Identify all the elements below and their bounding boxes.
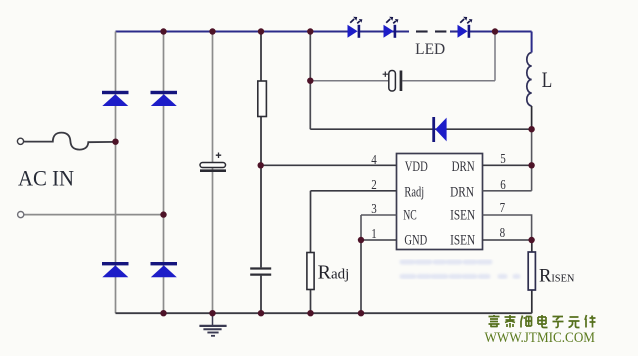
terminal AC bottom <box>18 212 24 218</box>
diode D4 bridge bottom-right <box>151 262 178 277</box>
wire AC bottom <box>24 214 164 216</box>
wire cap-link vertical <box>494 32 496 81</box>
node rail2-Radj <box>307 310 313 316</box>
wire NC-GND ground vertical <box>360 240 362 313</box>
node AC-bottom <box>160 211 166 217</box>
svg-text:LED: LED <box>415 41 445 58</box>
svg-text:GND: GND <box>404 233 427 249</box>
node rail-C1 <box>209 28 215 34</box>
diode D1 bridge top-left <box>102 91 129 106</box>
wire pin1 <box>361 239 397 241</box>
svg-text:8: 8 <box>500 225 506 240</box>
wire pin4 <box>261 164 397 166</box>
svg-text:ISEN: ISEN <box>450 233 475 249</box>
wire bulk cap vertical <box>212 32 214 314</box>
capacitor C1 electrolytic bulk <box>200 153 226 173</box>
LED LED3 <box>458 17 473 38</box>
wire pin3 <box>361 215 397 240</box>
wire pin7 <box>483 215 532 240</box>
node pin4 <box>258 162 264 168</box>
diode D5 freewheel <box>432 117 446 142</box>
wire left bridge branch vertical <box>115 32 117 314</box>
wire pin8 <box>483 239 532 241</box>
wire AC top with fuse <box>24 133 116 150</box>
node rail-VDDbranch <box>307 28 313 34</box>
svg-text:ISEN: ISEN <box>450 208 475 224</box>
svg-text:3: 3 <box>371 201 377 216</box>
node rail2-icgnd <box>358 310 364 316</box>
node rail2-gnd <box>209 310 215 316</box>
svg-text:DRN: DRN <box>450 185 474 201</box>
svg-text:4: 4 <box>371 152 377 167</box>
svg-text:AC IN: AC IN <box>18 166 74 191</box>
node rail-caplink <box>492 28 498 34</box>
inductor L1 <box>527 53 532 107</box>
wire pin2 <box>311 190 397 192</box>
ghost watermark smudges <box>402 262 518 277</box>
wire right bridge branch vertical <box>163 32 165 314</box>
node rail-R1 <box>258 28 264 34</box>
wire Radj branch vertical <box>310 191 312 313</box>
wire inductor top <box>531 32 533 53</box>
wire pin5 <box>483 164 532 166</box>
IC U1 box <box>397 154 483 250</box>
svg-text:5: 5 <box>500 151 506 166</box>
svg-text:DRN: DRN <box>452 159 475 175</box>
wire freewheel horizontal <box>310 128 531 130</box>
node AC-top <box>112 139 118 145</box>
wire pin6 <box>483 190 532 192</box>
svg-text:VDD: VDD <box>405 159 428 175</box>
svg-text:2: 2 <box>371 177 377 192</box>
wire bottom rail <box>116 312 532 314</box>
LED LED2 <box>384 17 399 38</box>
node drain-top <box>528 126 534 132</box>
wire Risen vertical <box>531 240 533 313</box>
capacitor C2 film <box>250 269 271 275</box>
svg-text:WWW.JTMIC.COM: WWW.JTMIC.COM <box>485 330 596 346</box>
LED LED1 <box>348 17 363 38</box>
node rail2-C2 <box>258 310 264 316</box>
node pin5 <box>528 162 534 168</box>
node caplink <box>307 78 313 84</box>
node rail-D2 <box>160 28 166 34</box>
ground symbol <box>199 313 226 336</box>
resistor R1 <box>258 81 267 117</box>
svg-text:7: 7 <box>500 200 506 215</box>
diode D3 bridge bottom-left <box>102 262 129 277</box>
wire cap-link horizontal <box>310 80 495 82</box>
watermark line1 Chinese <box>489 315 596 328</box>
wire drain node vertical <box>531 129 533 191</box>
svg-text:L: L <box>542 67 553 92</box>
wire R1/C2 vertical <box>260 32 262 314</box>
resistor Risen <box>528 252 535 290</box>
svg-text:Radj: Radj <box>404 185 424 201</box>
wire VDD node vertical <box>309 32 311 130</box>
svg-text:NC: NC <box>403 208 417 224</box>
node gnd-pin1 <box>358 237 364 243</box>
wire inductor bottom <box>531 106 533 129</box>
node pin8 <box>528 237 534 243</box>
svg-text:1: 1 <box>371 226 377 241</box>
resistor Radj <box>307 253 314 290</box>
diode D2 bridge top-right <box>151 91 178 106</box>
svg-text:6: 6 <box>500 177 506 192</box>
node rail2-D4 <box>160 310 166 316</box>
capacitor C3 electrolytic horizontal <box>383 71 403 92</box>
terminal AC top <box>17 138 23 144</box>
wire top rail <box>116 30 532 32</box>
